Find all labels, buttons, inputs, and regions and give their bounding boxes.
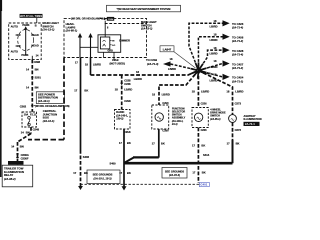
main light switch label — [42, 21, 59, 31]
svg-text:LB/RD: LB/RD — [168, 67, 176, 71]
svg-text:17: 17 — [73, 171, 76, 175]
svg-text:TO C428: TO C428 — [232, 49, 244, 53]
wire 17 BK from module to ground — [74, 58, 88, 187]
radio box — [115, 110, 131, 130]
arrow row4 — [210, 59, 244, 70]
svg-text:C228: C228 — [124, 79, 131, 83]
svg-text:C273: C273 — [235, 102, 242, 106]
svg-text:17: 17 — [74, 88, 77, 92]
svg-text:C230A: C230A — [21, 153, 29, 157]
fan wire row4 — [199, 64, 223, 71]
svg-text:DIMMER: DIMMER — [119, 38, 130, 42]
4wd ground wire — [192, 128, 206, 184]
svg-text:18: 18 — [226, 90, 229, 94]
svg-text:18: 18 — [85, 63, 88, 67]
fan wire row3 — [199, 50, 223, 70]
module bottom pins — [104, 52, 115, 57]
svg-text:(2A-15-4): (2A-15-4) — [169, 173, 180, 177]
inline connector C230 — [16, 153, 29, 160]
svg-text:17: 17 — [152, 141, 155, 145]
ground symbol left — [78, 186, 83, 190]
wire BN from switch down — [31, 60, 33, 112]
fan wire row5 — [199, 71, 223, 77]
svg-text:LO: LO — [112, 45, 115, 47]
switch rotary detail — [11, 23, 39, 57]
svg-text:SEE GROUNDS: SEE GROUNDS — [165, 169, 184, 173]
svg-text:10A: 10A — [24, 113, 29, 116]
switch pin A — [32, 53, 39, 59]
svg-text:BK: BK — [84, 88, 88, 92]
svg-text:C248: C248 — [33, 127, 40, 131]
svg-text:(2A-12-1): (2A-12-1) — [43, 119, 55, 123]
svg-text:LB/RD: LB/RD — [124, 88, 132, 92]
svg-text:(2A-71-2): (2A-71-2) — [232, 79, 243, 83]
svg-text:14: 14 — [21, 131, 24, 135]
svg-text:(2A-71-2): (2A-71-2) — [232, 66, 243, 70]
arrow row3 — [210, 46, 244, 57]
svg-text:LB/RD: LB/RD — [235, 90, 243, 94]
fuse box central junction box (dashed) — [22, 112, 37, 127]
splice S201 — [31, 75, 41, 79]
connector C262 — [20, 104, 34, 108]
svg-text:(2A-71-4): (2A-71-4) — [232, 26, 243, 30]
svg-text:LB/RD: LB/RD — [210, 25, 218, 29]
ashtray lamp — [229, 115, 237, 123]
svg-text:(2A-71-4): (2A-71-4) — [232, 53, 243, 57]
svg-text:24-1): 24-1) — [171, 123, 178, 126]
svg-text:14: 14 — [26, 67, 29, 71]
svg-text:S409: S409 — [110, 161, 117, 165]
arrow row1 — [210, 19, 244, 30]
svg-text:C262: C262 — [20, 104, 27, 108]
see power distribution note box — [36, 92, 64, 104]
svg-text:SEE GROUNDS: SEE GROUNDS — [93, 172, 113, 176]
svg-text:PARK: PARK — [22, 23, 29, 27]
svg-text:14: 14 — [11, 144, 14, 148]
svg-text:AUTO: AUTO — [11, 25, 18, 29]
svg-text:18: 18 — [136, 70, 139, 74]
main light switch box (dashed) — [9, 23, 42, 60]
svg-text:130-2): 130-2) — [116, 118, 123, 121]
svg-text:C226: C226 — [201, 129, 208, 132]
ground tie dashed line — [81, 183, 197, 185]
svg-text:TO C423: TO C423 — [232, 22, 244, 26]
svg-text:C2b0: C2b0 — [162, 130, 169, 133]
svg-text:BN: BN — [35, 67, 39, 71]
svg-text:G401: G401 — [200, 183, 207, 187]
svg-text:BN: BN — [26, 131, 30, 135]
pin wire from C24b — [104, 21, 106, 37]
svg-text:LB/RD: LB/RD — [201, 90, 209, 94]
svg-text:HOT AT ALL TIMES: HOT AT ALL TIMES — [20, 15, 43, 18]
svg-text:AUTO: AUTO — [11, 49, 18, 53]
option border (trailer tow region) — [28, 58, 64, 140]
svg-text:17: 17 — [192, 144, 195, 148]
svg-text:LA847: LA847 — [163, 47, 172, 51]
black label above relay — [8, 161, 24, 165]
svg-text:S201: S201 — [35, 75, 42, 79]
svg-text:C298: C298 — [34, 60, 41, 64]
svg-text:RELAY: RELAY — [4, 173, 13, 177]
headlamps text — [65, 22, 77, 32]
svg-text:C2b8: C2b8 — [124, 130, 131, 134]
svg-text:(2A-71-2): (2A-71-2) — [232, 39, 243, 43]
svg-text:18: 18 — [115, 88, 118, 92]
see grounds note box 1 — [87, 170, 120, 184]
svg-text:17: 17 — [119, 141, 122, 145]
module output wire down — [85, 58, 101, 76]
svg-text:F2.11: F2.11 — [30, 113, 37, 116]
fan wire row2 — [198, 37, 222, 71]
radio ground wire — [119, 129, 131, 187]
splice bus S414 — [110, 153, 233, 165]
svg-text:ILLUMINATION: ILLUMINATION — [244, 117, 262, 121]
svg-text:14: 14 — [26, 85, 29, 89]
ground ref G401 (blue) — [197, 182, 210, 186]
function selector switch box — [152, 105, 169, 129]
wire label 14 BN upper — [26, 67, 39, 71]
LA847 label — [160, 46, 196, 68]
svg-text:C2b9: C2b9 — [112, 58, 119, 62]
connector arrow + black label C24b — [104, 17, 114, 21]
radio wire labels — [115, 79, 133, 103]
fuse symbol — [28, 117, 31, 126]
wire label 14 BN bottom — [21, 131, 30, 135]
see grounds note box 2 — [162, 168, 187, 179]
wire hub to ashtray — [199, 71, 244, 115]
wire 14 BN to trailer relay — [11, 142, 24, 165]
ground symbol center — [122, 186, 127, 190]
svg-text:BK: BK — [202, 170, 206, 174]
svg-text:TO C427: TO C427 — [232, 62, 244, 66]
svg-text:PARK: PARK — [21, 53, 28, 57]
svg-text:C230F: C230F — [21, 156, 29, 160]
module solid box — [98, 35, 121, 53]
svg-text:BN: BN — [20, 144, 24, 148]
scan artifact bar top-left — [0, 0, 2, 177]
svg-text:LB/RD: LB/RD — [162, 92, 170, 96]
svg-text:18: 18 — [152, 92, 155, 96]
lamp glyphs in module — [103, 40, 116, 47]
wire hub to function selector — [152, 71, 199, 106]
svg-text:LB/RD: LB/RD — [210, 52, 218, 56]
4wd text — [210, 109, 226, 122]
function selector text — [171, 107, 186, 126]
svg-text:BOX: BOX — [43, 116, 49, 120]
svg-text:C226: C226 — [201, 102, 208, 105]
svg-text:(NOT USED): (NOT USED) — [110, 62, 126, 66]
svg-text:TO C424: TO C424 — [232, 76, 244, 80]
svg-text:BK: BK — [127, 141, 131, 145]
svg-text:(2A-35-1): (2A-35-1) — [210, 118, 221, 121]
switch pin B — [35, 18, 37, 28]
selector ground wire — [152, 129, 165, 158]
svg-text:(2A-95-2): (2A-95-2) — [4, 177, 16, 181]
svg-text:C24b: C24b — [108, 18, 114, 21]
svg-text:TO C426: TO C426 — [232, 36, 244, 40]
svg-text:*(W/ REAR SEAT ENTERTAINMENT S: *(W/ REAR SEAT ENTERTAINMENT SYSTEM — [117, 7, 171, 11]
svg-text:17: 17 — [227, 141, 230, 145]
svg-text:BK: BK — [127, 171, 131, 175]
svg-text:(2A-13-1): (2A-13-1) — [42, 28, 54, 32]
wire below fuse — [18, 127, 32, 142]
wire hub to 4wd switch — [192, 71, 209, 108]
splice hub S440 — [191, 62, 212, 78]
main light switch note right — [141, 20, 157, 30]
left arrow TO C249 — [146, 57, 196, 71]
power label HOT AT ALL TIMES — [20, 14, 43, 18]
svg-text:LB/RD: LB/RD — [134, 77, 142, 81]
svg-text:C2b8: C2b8 — [124, 99, 131, 103]
svg-text:C272: C272 — [235, 128, 242, 132]
svg-text:LB/RD: LB/RD — [93, 63, 101, 67]
svg-text:BK: BK — [201, 144, 205, 148]
svg-text:BK: BK — [161, 141, 165, 145]
svg-text:BN: BN — [35, 85, 39, 89]
headlamps module dashed box — [64, 18, 147, 57]
svg-text:2A-72-4: 2A-72-4 — [245, 122, 255, 126]
selector join bar — [125, 157, 159, 162]
wire label 17 BK lower-left — [73, 171, 88, 175]
svg-text:18: 18 — [192, 90, 195, 94]
svg-text:(2A-60-1): (2A-60-1) — [65, 29, 77, 33]
headlamp feed arrows — [78, 33, 98, 58]
wire branch to radio — [121, 75, 123, 110]
svg-text:C228: C228 — [124, 82, 131, 86]
svg-text:B: B — [35, 24, 37, 28]
svg-text:(2A-13-1): (2A-13-1) — [141, 27, 153, 31]
svg-text:LB/RD: LB/RD — [210, 78, 218, 82]
svg-text:LB/RD: LB/RD — [210, 65, 218, 69]
banner note box — [107, 5, 181, 12]
svg-text:(2A-10-1): (2A-10-1) — [38, 99, 50, 103]
fan wire row1 — [189, 23, 223, 70]
ashtray ground wire — [227, 122, 240, 163]
svg-text:LB/RD: LB/RD — [210, 38, 218, 42]
arrow row5 — [210, 73, 244, 84]
wire label 14 BN lower — [26, 85, 39, 89]
note on top edge — [71, 16, 104, 20]
svg-text:17: 17 — [192, 170, 195, 174]
inner dashed partition — [105, 23, 147, 25]
svg-text:S414: S414 — [203, 153, 210, 157]
trailer tow illumination relay box — [2, 165, 33, 187]
ashtray text — [244, 114, 262, 126]
svg-text:(2A-15-2, 15-3): (2A-15-2, 15-3) — [93, 177, 111, 181]
central junction box label — [43, 109, 57, 123]
arrow row2 — [210, 32, 244, 43]
svg-text:GRD: GRD — [108, 50, 114, 53]
svg-text:TO C2b9: TO C2b9 — [146, 58, 158, 62]
svg-text:(W/ DRL OR HEADLAMPS): (W/ DRL OR HEADLAMPS) — [71, 16, 104, 20]
4wd mode switch box — [192, 108, 208, 128]
main feed wire to splice hub — [91, 70, 199, 81]
svg-text:S406: S406 — [83, 155, 90, 159]
not used pin stub — [110, 58, 126, 66]
svg-text:(2A-71-4): (2A-71-4) — [147, 62, 159, 66]
svg-text:BK: BK — [236, 141, 240, 145]
